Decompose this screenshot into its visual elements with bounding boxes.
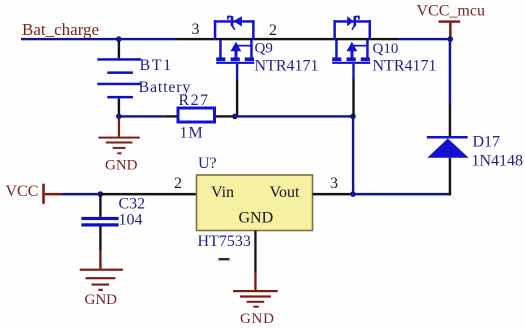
svg-text:GND: GND xyxy=(105,157,138,173)
wire Vout junction to D17 corner (navy) xyxy=(353,193,451,196)
wire battery to R27 (navy) xyxy=(119,115,165,117)
regulator U? HT7533 body xyxy=(197,175,313,231)
node junction dot battery bottom xyxy=(116,114,122,120)
wire Q10 gate junction down to Vout net (navy) xyxy=(352,116,354,194)
resistor R27 xyxy=(178,108,215,122)
svg-text:VCC_mcu: VCC_mcu xyxy=(417,3,485,20)
svg-text:Q10: Q10 xyxy=(373,41,399,57)
battery BT1 bottom wire xyxy=(118,98,120,115)
wire top rail navy segment (x398 to VCC_mcu junction) xyxy=(398,38,451,40)
transistor Q10 body-diode loop xyxy=(333,20,371,40)
ground GND battery stub xyxy=(118,118,120,137)
capacitor C32 plates xyxy=(81,217,118,227)
svg-text:1N4148: 1N4148 xyxy=(472,152,524,169)
wire VCC stub (dark red) xyxy=(45,193,62,196)
wire R27 to gate junction (black) xyxy=(216,115,235,117)
ground GND C32 bars xyxy=(80,269,123,291)
transistor Q9 body-diode loop xyxy=(214,20,255,40)
wire into R27 (black) xyxy=(165,115,177,117)
svg-text:GND: GND xyxy=(85,292,118,308)
wire Q10 gate vertical (black lower segment) xyxy=(352,79,354,116)
power port VCC_mcu stub xyxy=(449,23,452,38)
power port VCC bar xyxy=(42,184,45,204)
power port VCC_mcu bar xyxy=(439,20,461,22)
transistor Q10 body diode (schottky, pointing right) xyxy=(347,16,359,30)
node junction dot Vout net xyxy=(350,191,356,197)
wire top rail black segment (x176 to x398) xyxy=(177,38,398,40)
svg-text:1M: 1M xyxy=(180,124,204,141)
transistor Q9 channel structure xyxy=(216,40,254,64)
node junction dot C32 xyxy=(98,191,104,197)
svg-text:GND: GND xyxy=(240,311,275,327)
svg-text:HT7533: HT7533 xyxy=(198,233,251,250)
value dash (-1) xyxy=(219,258,230,260)
node junction dot Q10 gate xyxy=(350,114,356,120)
svg-text:GND: GND xyxy=(239,209,274,226)
diode D17 cathode bar xyxy=(427,136,468,139)
svg-text:VCC: VCC xyxy=(6,183,39,200)
svg-text:Vout: Vout xyxy=(270,184,300,201)
wire Vout to junction (black) xyxy=(313,193,354,196)
wire VCC to C32 junction (navy) xyxy=(62,193,100,196)
wire Q9 gate vertical (blue upper segment) xyxy=(236,64,238,79)
svg-text:3: 3 xyxy=(330,175,338,192)
battery BT1 top wire xyxy=(118,40,120,58)
transistor Q10 channel structure xyxy=(332,40,370,64)
wire gate junction to Q10 gate junction (navy) xyxy=(235,115,353,117)
capacitor C32 top wire xyxy=(99,194,101,217)
svg-text:R27: R27 xyxy=(179,92,210,109)
ground GND battery bars xyxy=(98,137,139,155)
node junction dot battery top xyxy=(116,36,122,42)
svg-text:Q9: Q9 xyxy=(255,40,273,56)
diode D17 triangle xyxy=(427,139,468,158)
svg-text:BT1: BT1 xyxy=(140,57,173,74)
wire C32 junction to Vin (black) xyxy=(100,193,196,196)
node junction dot VCC_mcu xyxy=(447,36,453,42)
wire D17 bottom vertical (black) xyxy=(449,158,452,196)
wire regulator GND pin (black then dark red) xyxy=(254,231,256,273)
svg-text:Bat_charge: Bat_charge xyxy=(22,20,99,39)
svg-text:NTR4171: NTR4171 xyxy=(373,58,437,75)
svg-text:104: 104 xyxy=(119,211,143,228)
svg-text:U?: U? xyxy=(198,155,217,172)
transistor Q9 body diode (schottky, pointing left) xyxy=(228,16,242,30)
wire D17 top (navy then black) xyxy=(449,40,452,105)
wire top rail navy segment (Bat_charge to x176) xyxy=(21,38,177,40)
wire Q9 gate vertical (black lower segment) xyxy=(236,79,238,116)
wire Q10 gate vertical (blue upper segment) xyxy=(352,64,354,79)
ground GND regulator bars xyxy=(233,290,278,308)
svg-text:NTR4171: NTR4171 xyxy=(255,57,319,74)
svg-text:2: 2 xyxy=(174,175,182,192)
svg-text:D17: D17 xyxy=(473,133,501,150)
battery BT1 plates xyxy=(97,58,141,98)
svg-text:3: 3 xyxy=(192,21,200,38)
svg-text:2: 2 xyxy=(269,22,277,39)
capacitor C32 bottom wire (black then dark red) xyxy=(99,227,101,251)
node junction dot Q9 gate xyxy=(232,114,238,120)
svg-text:Vin: Vin xyxy=(211,184,234,201)
svg-text:C32: C32 xyxy=(119,196,146,213)
